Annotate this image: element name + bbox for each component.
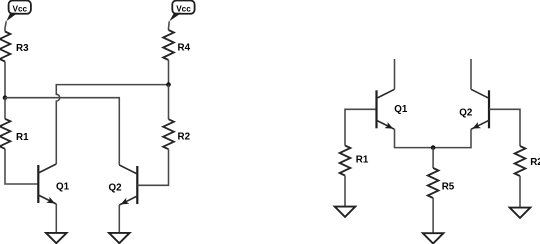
wire R1 to Q1 base (right circuit) (345, 109, 377, 145)
wire R1 to ground (right) (344, 176, 346, 207)
common emitter node junction (431, 145, 436, 150)
ground below R5 (423, 233, 444, 243)
wire R4 to node B (168, 60, 170, 85)
resistor R1 (0, 119, 29, 149)
transistor Q1 (left) (38, 164, 69, 204)
wire Q1 collector stub (right) (394, 59, 396, 89)
resistor R1 (right) (340, 146, 369, 176)
ground below Q1 (left) (46, 233, 67, 243)
wire Q2 emitter to common node (right) (433, 129, 471, 147)
ground below Q2 (left) (109, 233, 130, 243)
svg-text:R3: R3 (16, 43, 29, 54)
wire R3 to node A (4, 62, 6, 98)
wire Q2 collector stub (right) (470, 59, 472, 89)
svg-text:R4: R4 (178, 43, 191, 54)
svg-text:R1: R1 (16, 132, 29, 143)
wire R2 to ground (right) (519, 176, 521, 208)
wire Vcc2 to R4 (168, 21, 171, 30)
svg-text:Q2: Q2 (459, 108, 473, 119)
wire Q2 emitter to ground (118, 205, 120, 233)
svg-text:R2: R2 (178, 132, 191, 143)
wire Q1 emitter to common node (right) (395, 129, 434, 147)
resistor R5 (428, 168, 455, 198)
svg-text:Q2: Q2 (109, 182, 123, 193)
resistor R4 (163, 30, 190, 60)
node B junction (166, 82, 171, 87)
svg-text:Q1: Q1 (56, 181, 70, 192)
transistor Q2 (right) (459, 89, 489, 129)
svg-text:Q1: Q1 (394, 104, 408, 115)
svg-text:Vcc: Vcc (13, 5, 28, 14)
power flag Vcc (left, V1) (6, 1, 31, 22)
ground below R2 (right) (510, 208, 531, 218)
resistor R2 (right) (515, 146, 540, 176)
wire node B to R2 (168, 85, 170, 120)
wire node A to R1 (4, 98, 6, 119)
wire node A to Q2 collector (5, 98, 119, 165)
wire R2 to Q2 base (137, 149, 168, 185)
resistor R2 (left) (163, 119, 190, 149)
wire R1 to Q1 base (5, 149, 38, 184)
svg-text:Vcc: Vcc (176, 5, 191, 14)
wire Q1 emitter to ground (55, 204, 57, 233)
transistor Q2 (left) (109, 165, 138, 205)
wire R5 to ground (432, 198, 434, 233)
wire Q2 base to R2 (right circuit) (489, 109, 520, 146)
power flag Vcc (left, V2) (169, 1, 194, 22)
resistor R3 (0, 32, 29, 62)
svg-text:R2: R2 (530, 157, 540, 168)
ground below R1 (right) (335, 207, 356, 217)
transistor Q1 (right) (377, 89, 408, 129)
wire Vcc1 to R3 (5, 21, 6, 31)
wire node to R5 (432, 148, 434, 168)
svg-text:R1: R1 (356, 155, 369, 166)
wire Q1 collector to node B (hops over node-A wire) (56, 85, 168, 164)
node A junction (3, 95, 8, 100)
svg-text:R5: R5 (442, 182, 455, 193)
